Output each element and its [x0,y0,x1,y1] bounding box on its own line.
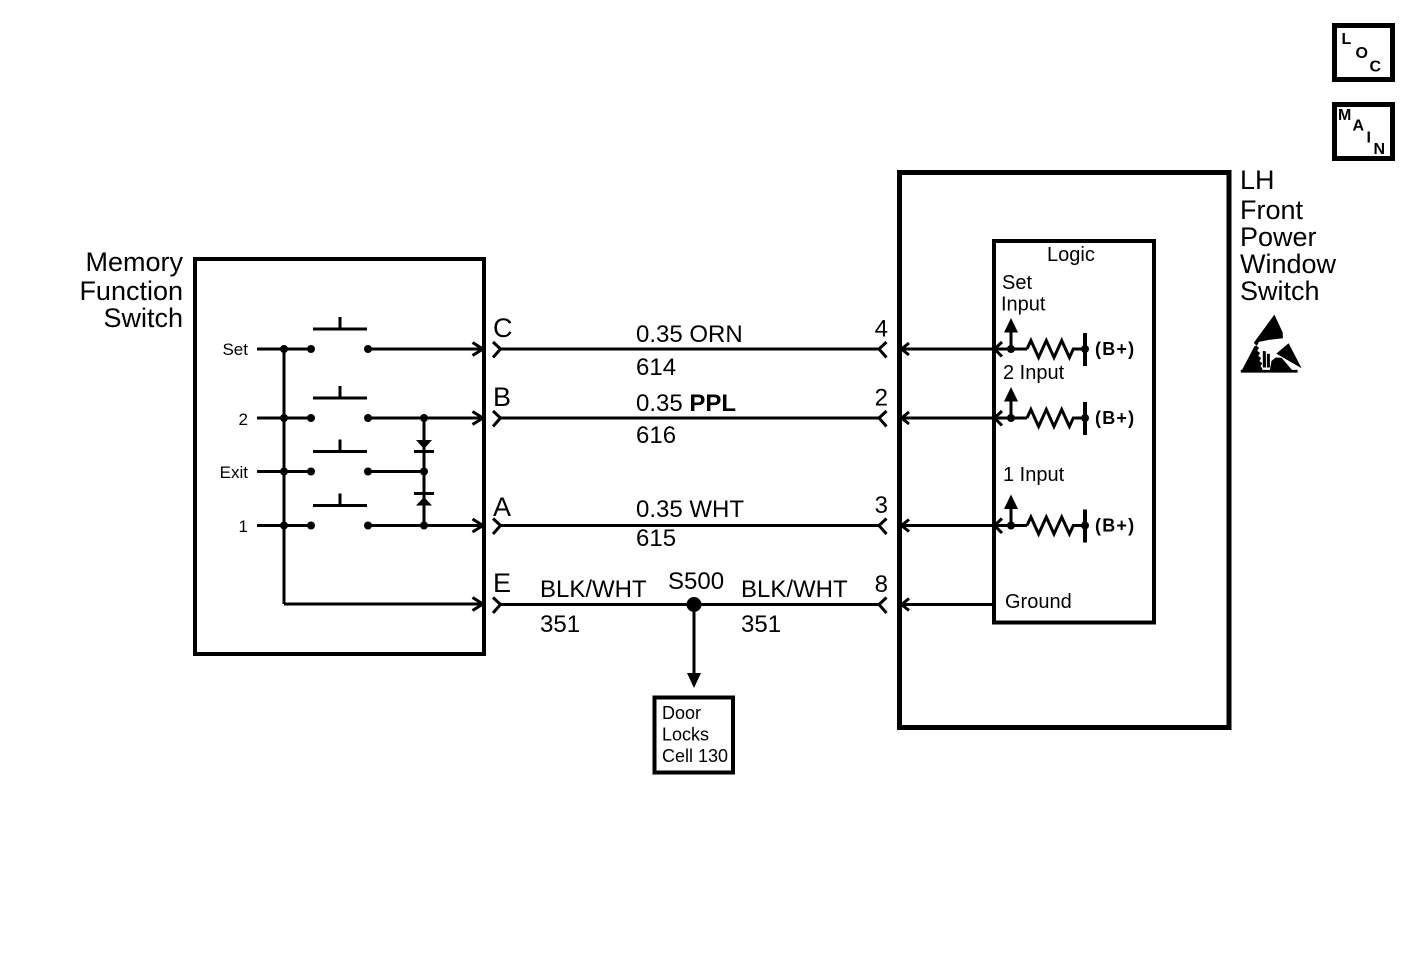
pin C chevron [493,342,501,358]
wire 2 to box edge [368,417,481,420]
node 1 bus junction [280,522,288,530]
svg-text:C: C [1370,59,1382,76]
wire logic set input [995,348,1028,351]
svg-text:Memory: Memory [85,247,183,277]
wire Set to box edge [368,348,481,351]
svg-text:I: I [1367,130,1371,147]
svg-text:(B+): (B+) [1095,408,1135,428]
wire pin8 ground [901,603,994,606]
svg-text:614: 614 [636,354,676,381]
arrow pin2 [902,412,910,424]
svg-text:1 Input: 1 Input [1003,464,1065,486]
wire 1 to box edge [368,524,481,527]
wire logic 1 input [995,524,1028,527]
arrow up 2 input [1004,387,1018,418]
ESD symbol [1241,315,1302,373]
wire pin3 inside box [901,524,994,527]
svg-text:BLK/WHT: BLK/WHT [540,576,647,603]
node 2 input [1007,414,1015,422]
pin A chevron [493,519,501,535]
wire A to 3 [501,524,880,527]
node 2 input B+ [1081,414,1089,422]
arrow 1 at box edge [473,519,484,532]
connector box LOC [1335,26,1393,80]
svg-text:Ground: Ground [1005,591,1072,613]
svg-text:Locks: Locks [662,725,709,745]
svg-text:Set: Set [222,340,248,359]
svg-text:Cell 130: Cell 130 [662,746,728,766]
svg-text:2: 2 [239,410,248,429]
svg-text:Window: Window [1240,249,1337,279]
switch Exit [307,440,372,476]
wire B to 2 [501,417,880,420]
svg-text:Logic: Logic [1047,244,1095,266]
switch Set [307,317,372,353]
node 2 bus junction [280,414,288,422]
arrow pin8 [902,599,910,611]
arrow E at box edge [473,598,484,611]
connector box MAIN [1335,105,1393,159]
svg-text:2: 2 [875,385,888,412]
diode D1 [414,440,434,453]
svg-text:4: 4 [875,316,888,343]
wire Exit to diode bus [368,470,424,473]
node set input B+ [1081,345,1089,353]
node S500 splice [687,597,702,612]
svg-text:Input: Input [1001,294,1046,316]
pin E chevron [493,598,501,614]
svg-text:Function: Function [79,276,183,306]
svg-text:C: C [493,313,513,343]
chevron logic 1 input [995,519,1003,534]
svg-text:E: E [493,568,511,598]
chevron logic 2 input [995,411,1003,426]
wire 1 row [257,524,311,527]
label Door Locks Cell 130 [662,703,728,766]
svg-text:M: M [1338,107,1351,124]
node diode bottom junction [420,522,428,530]
node 1 input [1007,522,1015,530]
svg-text:(B+): (B+) [1095,516,1135,536]
label Memory Function Switch [79,247,183,333]
pin B chevron [493,411,501,427]
svg-text:Door: Door [662,703,701,723]
svg-text:Switch: Switch [1240,276,1320,306]
chevron logic set input [995,342,1003,357]
node diode mid junction [420,468,428,476]
arrow up 1 input [1004,495,1018,526]
wire 2 row [257,417,311,420]
node 1 input B+ [1081,522,1089,530]
wire S500 down arrow [687,605,701,689]
B+ bar 2 input [1083,402,1087,435]
switch 2 [307,386,372,422]
svg-text:A: A [1353,118,1365,135]
svg-text:616: 616 [636,422,676,449]
wire E row bottom [284,603,481,606]
svg-text:8: 8 [875,571,888,598]
svg-text:1: 1 [239,517,248,536]
diode D2 [414,492,434,506]
wire pin2 inside box [901,417,994,420]
arrow Set at box edge [473,343,484,356]
resistor 2 input [1027,410,1083,427]
svg-text:O: O [1356,45,1368,62]
svg-text:3: 3 [875,492,888,519]
chevron 8 [879,598,887,614]
wire diode branch vertical [423,418,426,526]
LH front power window switch box [900,173,1230,728]
label Set Input [1001,272,1046,316]
node set input [1007,345,1015,353]
svg-text:2 Input: 2 Input [1003,362,1065,384]
wire E to 8 [501,603,880,606]
svg-text:Front: Front [1240,195,1304,225]
door locks cell 130 box [655,698,734,773]
svg-text:615: 615 [636,525,676,552]
wire Exit row [257,470,311,473]
chevron 4 [879,342,887,358]
svg-text:B: B [493,382,511,412]
arrow 2 at box edge [473,412,484,425]
svg-text:Switch: Switch [103,303,183,333]
svg-text:S500: S500 [668,568,724,595]
wire C to 4 [501,348,880,351]
chevron 3 [879,519,887,535]
svg-text:351: 351 [741,611,781,638]
wire pin4 inside box [901,348,994,351]
chevron 2 [879,411,887,427]
svg-text:0.35 PPL: 0.35 PPL [636,390,736,417]
svg-text:351: 351 [540,611,580,638]
svg-text:(B+): (B+) [1095,339,1135,359]
switch 1 [307,494,372,530]
bus wire left vertical [283,349,286,604]
arrow pin4 [902,343,910,355]
resistor 1 input [1027,517,1083,534]
memory function switch box [195,259,484,654]
node Exit bus junction [280,468,288,476]
svg-text:BLK/WHT: BLK/WHT [741,576,848,603]
resistor set input [1027,341,1083,358]
wire logic 2 input [995,417,1028,420]
label LH Front Power Window Switch [1240,165,1337,306]
svg-text:0.35 ORN: 0.35 ORN [636,321,743,348]
svg-text:Exit: Exit [220,463,249,482]
svg-text:L: L [1342,31,1352,48]
arrow pin3 [902,520,910,532]
arrow up set input [1004,318,1018,349]
svg-text:LH: LH [1240,165,1275,195]
B+ bar 1 input [1083,510,1087,543]
svg-text:0.35 WHT: 0.35 WHT [636,496,744,523]
svg-text:N: N [1374,141,1386,158]
node Set bus junction [280,345,288,353]
node diode top junction [420,414,428,422]
svg-text:Power: Power [1240,222,1317,252]
svg-text:A: A [493,492,511,522]
wire Set row [257,348,311,351]
svg-text:Set: Set [1002,272,1032,294]
logic box [994,241,1154,623]
B+ bar set input [1083,333,1087,366]
